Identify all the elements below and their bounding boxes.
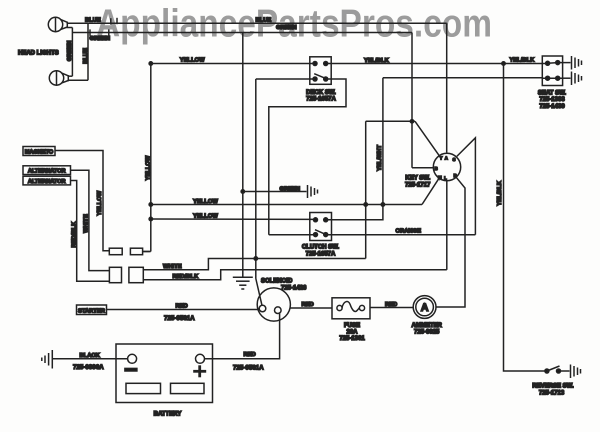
svg-text:RED: RED — [302, 302, 314, 308]
reverse switch SW4 — [545, 366, 570, 373]
wire seat bottom stub + ground — [563, 77, 571, 79]
wire V1 vertical — [365, 121, 367, 258]
svg-text:725-0925: 725-0925 — [414, 330, 440, 336]
svg-text:A: A — [445, 155, 448, 160]
connector pair (yellow) — [109, 248, 122, 255]
wire white to V1 — [143, 259, 365, 270]
svg-text:Y: Y — [440, 155, 443, 160]
key switch U1 — [433, 153, 460, 180]
svg-text:YELLOW: YELLOW — [193, 199, 218, 205]
wire deck switch loop down — [269, 79, 346, 235]
svg-text:REVERSE SW.: REVERSE SW. — [532, 383, 574, 389]
svg-text:GREEN: GREEN — [276, 25, 297, 31]
headlight lamp L2 — [49, 71, 68, 85]
wire yel/wht horizontal to seat switch bottom — [383, 77, 542, 79]
node junction white/solenoid — [254, 257, 257, 260]
svg-text:RED/BLK: RED/BLK — [71, 221, 77, 248]
wire diagonal to key A — [415, 121, 439, 155]
ammeter M1 — [413, 296, 436, 319]
svg-text:RED: RED — [385, 302, 397, 308]
wire key G diagonal to ammeter — [436, 177, 465, 307]
svg-text:YEL/BLK: YEL/BLK — [497, 180, 503, 206]
solenoid K1 — [257, 288, 290, 321]
svg-text:725-1657A: 725-1657A — [306, 97, 336, 103]
node junctions on yellow 1 — [149, 203, 152, 206]
wire green horizontal top — [72, 32, 412, 34]
svg-text:725-0561A: 725-0561A — [164, 315, 195, 322]
svg-text:MAGNETO: MAGNETO — [25, 150, 54, 156]
svg-text:YEL/BLK: YEL/BLK — [364, 58, 390, 64]
svg-text:YELLOW: YELLOW — [180, 57, 205, 63]
svg-text:YELLOW: YELLOW — [193, 213, 218, 219]
wire seat top stub + ground — [558, 62, 571, 64]
wire key S diagonal and vertical — [457, 138, 476, 235]
svg-text:ALTERNATOR: ALTERNATOR — [28, 169, 66, 175]
svg-text:RED: RED — [244, 352, 256, 358]
node junction yellow — [149, 62, 152, 65]
svg-text:725-1426: 725-1426 — [281, 286, 307, 292]
svg-text:YEL/BLK: YEL/BLK — [510, 58, 536, 64]
svg-text:FUSE: FUSE — [344, 323, 360, 329]
svg-text:GREEN: GREEN — [90, 36, 111, 42]
svg-text:ORANGE: ORANGE — [396, 229, 422, 235]
svg-text:ALTERNATOR: ALTERNATOR — [28, 179, 66, 185]
svg-text:20A: 20A — [346, 330, 358, 336]
wire blue vertical drop to key switch top — [446, 23, 448, 152]
wire battery minus to ground — [53, 358, 128, 360]
wire blue horizontal top — [67, 22, 447, 24]
wire blue vertical to lamp L2 — [87, 23, 89, 80]
wire white from alternator 1 — [71, 170, 110, 270]
svg-text:RED/BLK: RED/BLK — [173, 274, 200, 280]
svg-text:KEY SW.: KEY SW. — [405, 176, 430, 182]
svg-text:GREEN: GREEN — [67, 41, 73, 62]
wire green ground stub — [243, 191, 307, 193]
svg-text:CLUTCH SW.: CLUTCH SW. — [302, 245, 340, 251]
alternator box 1 — [23, 166, 71, 175]
wire orange — [269, 234, 316, 236]
wire clutch top right / yel-wht vertical — [326, 78, 383, 220]
clutch switch SW2 — [310, 213, 332, 241]
svg-text:725-1439: 725-1439 — [539, 104, 565, 110]
svg-text:725-1713: 725-1713 — [539, 390, 565, 396]
svg-text:B: B — [435, 166, 438, 171]
battery BT1 — [116, 344, 213, 403]
wire yel/blk vertical long — [504, 64, 546, 372]
wire starter to solenoid — [107, 309, 260, 311]
fuse F1 — [332, 298, 370, 319]
connector pair (white, red/blk) — [109, 267, 121, 282]
deck switch SW1 — [310, 57, 331, 85]
wire green vertical drop to key switch B — [411, 33, 413, 168]
seat switch SW3 — [542, 56, 562, 86]
wire magneto yellow — [55, 151, 109, 251]
wire solenoid to battery plus — [205, 313, 280, 359]
node junction yel/blk — [502, 62, 505, 65]
svg-text:725-1303: 725-1303 — [539, 97, 565, 103]
svg-text:BLACK: BLACK — [80, 353, 101, 359]
connector tick on green wire — [89, 29, 91, 36]
magneto box — [23, 147, 55, 156]
alternator box 2 — [23, 176, 71, 185]
headlight lamp L1 — [48, 17, 67, 31]
svg-text:S: S — [453, 157, 456, 162]
svg-text:SEAT SW.: SEAT SW. — [538, 90, 567, 96]
ground chassis (green stub) — [308, 185, 318, 198]
svg-text:STARTER: STARTER — [78, 308, 106, 314]
svg-text:SOLENOID: SOLENOID — [261, 279, 293, 285]
wire yellow horizontal to deck switch — [151, 63, 315, 65]
wire key L vertical — [446, 180, 448, 270]
node junction green/key — [410, 120, 413, 123]
wire green drop to ground — [242, 33, 244, 277]
svg-text:WHITE: WHITE — [84, 214, 90, 233]
ground earth (main) — [233, 277, 253, 289]
svg-text:HEAD LIGHTS: HEAD LIGHTS — [18, 51, 59, 57]
wire yellow 1 horizontal — [151, 204, 422, 206]
wire red/blk to key switch L — [143, 270, 447, 280]
svg-text:AMMETER: AMMETER — [412, 323, 443, 329]
wire horizontal V1 to key A — [366, 120, 415, 122]
ground chassis (reverse) — [571, 365, 581, 379]
wire green vertical between lamps — [67, 27, 73, 29]
connector tick on blue wire — [110, 18, 112, 24]
wire solenoid to fuse — [290, 307, 332, 309]
starter box — [77, 305, 107, 315]
svg-text:725-0996A: 725-0996A — [73, 364, 104, 371]
svg-text:BATTERY: BATTERY — [154, 411, 182, 417]
svg-text:YELLOW: YELLOW — [97, 190, 103, 215]
svg-text:WHITE: WHITE — [163, 264, 182, 270]
wire key M diagonal — [422, 178, 439, 205]
wire yel/blk deck switch to seat switch — [326, 63, 548, 65]
svg-text:BLUE: BLUE — [256, 17, 272, 23]
svg-text:A: A — [421, 302, 429, 314]
svg-text:BLUE: BLUE — [85, 17, 101, 23]
svg-text:725-1717: 725-1717 — [405, 183, 431, 189]
wire key switch B stub — [412, 167, 433, 169]
ground chassis (battery) — [42, 350, 53, 369]
svg-text:725-1361: 725-1361 — [339, 336, 365, 342]
wire yellow 2 horizontal to clutch — [151, 218, 316, 220]
svg-text:725-1657A: 725-1657A — [306, 252, 336, 258]
wire yellow vertical main — [150, 64, 152, 252]
svg-text:YEL/WHT: YEL/WHT — [377, 145, 383, 172]
svg-text:L: L — [444, 176, 447, 181]
svg-text:725-0561A: 725-0561A — [233, 365, 264, 372]
svg-text:DECK SW.: DECK SW. — [306, 90, 336, 96]
svg-text:YELLOW: YELLOW — [146, 155, 152, 180]
svg-text:AppliancePartsPros.com: AppliancePartsPros.com — [96, 3, 492, 46]
wire deck switch bottom-left down to solenoid — [256, 78, 315, 80]
svg-text:GREEN: GREEN — [280, 186, 301, 192]
svg-text:RED: RED — [176, 304, 188, 310]
wire red/blk from alternator 2 — [71, 181, 110, 282]
svg-text:BLUE: BLUE — [83, 48, 89, 64]
wire fuse to ammeter — [370, 307, 413, 309]
